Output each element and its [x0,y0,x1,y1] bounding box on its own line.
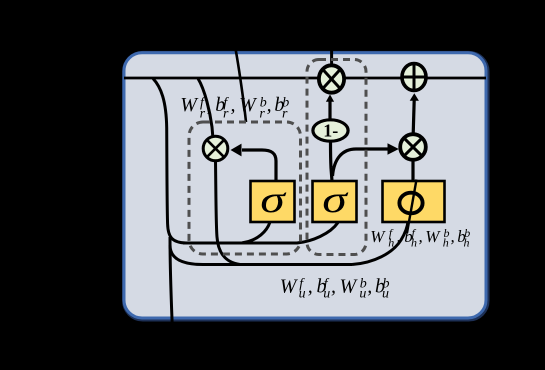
label W_r weights [180,94,289,121]
wire: vertical input line crossing bottom border [170,237,173,332]
wire: sigma2 output stub up to 1- node [331,142,333,181]
multiply gate (reset) [203,136,228,161]
arrow: sigma2 tap to right multiply gate [333,149,389,176]
svg-text:W,b,W,b: W,b,W,b [180,94,284,116]
svg-text:σ: σ [260,179,287,221]
wire: slanted input line entering reset group [235,46,246,122]
wire: input stub above top multiply gate [330,48,333,66]
arrow: right multiply gate up to add gate [413,100,414,134]
label W_u weights [280,275,390,301]
multiply gate (right) [400,134,426,160]
wire: stem below reset multiply gate joining line C [216,160,241,265]
GRU cell body shadow [125,54,487,319]
svg-text:1-: 1- [323,120,338,140]
wire: line C branch from vertical [170,245,352,265]
node 1- (one minus) [313,120,348,141]
svg-text:σ: σ [322,179,349,221]
GRU cell body [124,53,486,318]
wire: line B horizontal rising to sigma2 bottom [183,223,338,244]
sigma box 1 (reset gate activation) [251,179,295,222]
label W_h weights [370,226,470,250]
phi box (candidate activation) [383,180,445,234]
sigma box 2 (update gate activation) [313,179,357,222]
arrow: 1- node up to top multiply gate [328,101,331,120]
add gate [402,64,426,91]
dashed group: reset gate [189,122,301,254]
arrow: sigma1 output to reset multiply gate [242,150,276,181]
svg-text:W,b,W,b: W,b,W,b [280,275,385,297]
wire: state line h (top horizontal) [124,77,486,80]
multiply gate (top) [319,65,344,92]
wire: line C rising into phi box bottom [352,221,408,265]
dashed group: update gate [307,60,366,255]
wire: curve from state line to reset multiply gate [198,79,213,140]
wire: drop from sigma1 bottom joining line B [242,222,270,243]
wire: left long curve from state line down [153,79,186,244]
wire: right multiply gate down to phi box [411,159,414,181]
